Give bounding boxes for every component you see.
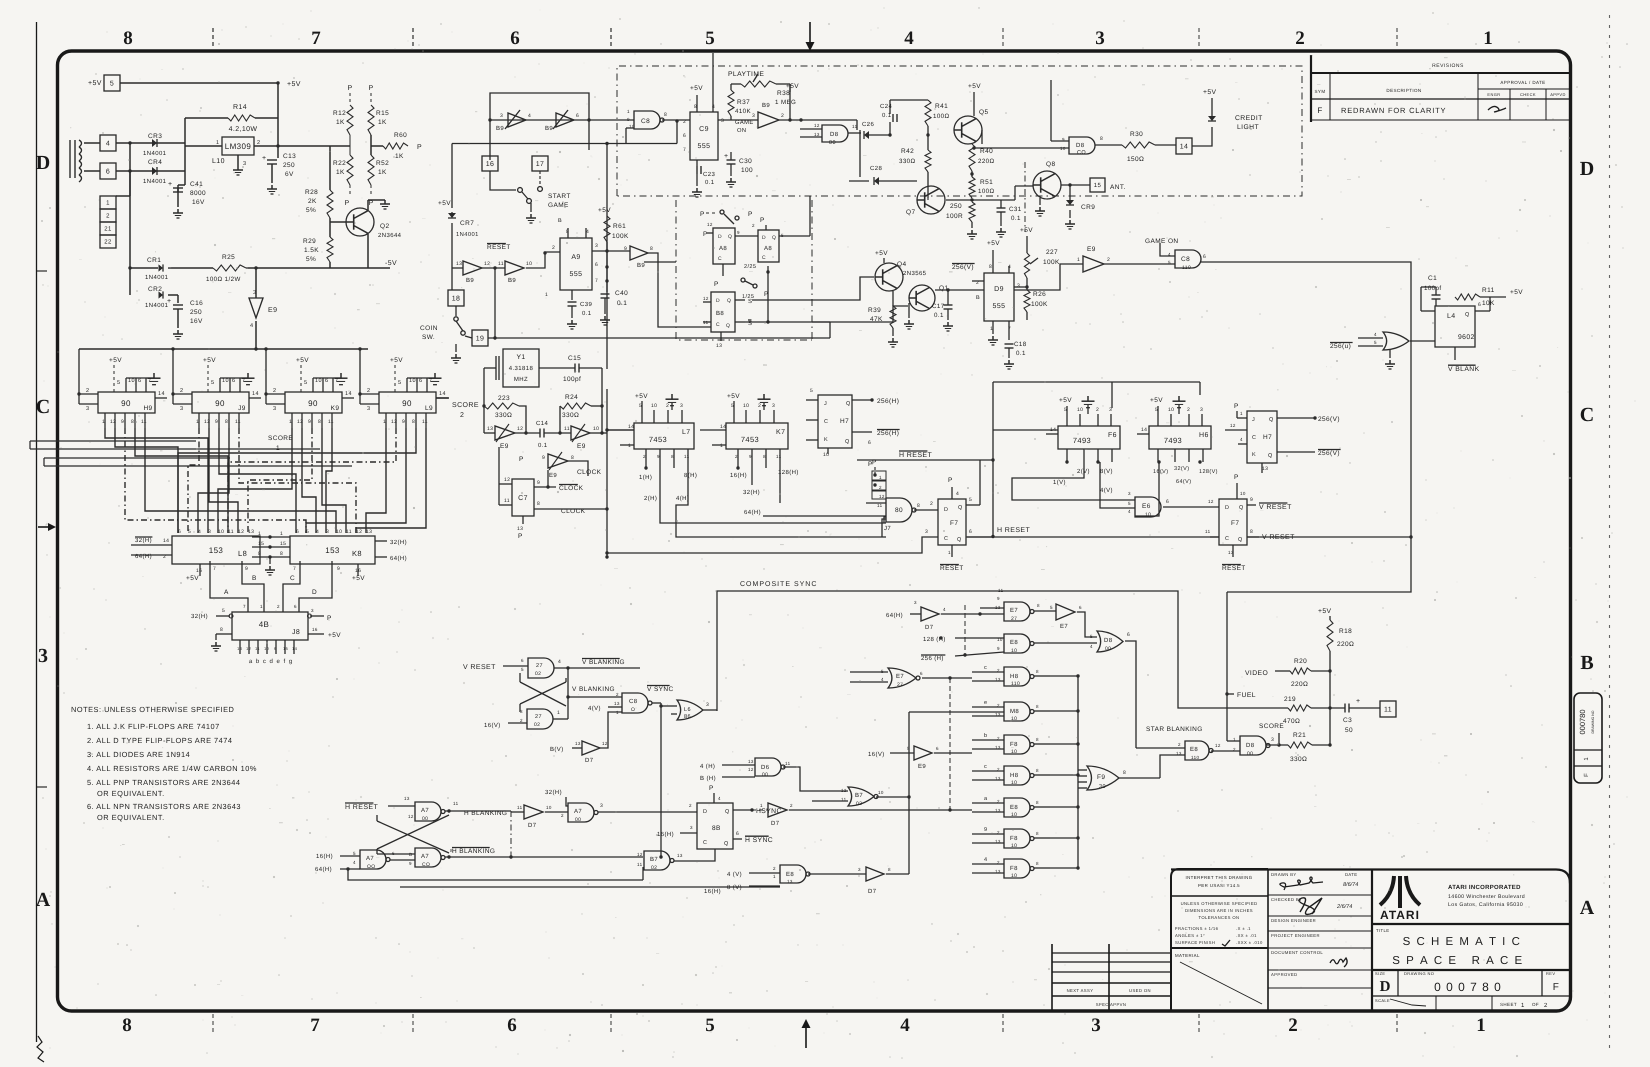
svg-text:C9: C9: [699, 126, 709, 133]
svg-text:9: 9: [409, 861, 412, 866]
svg-text:+5V: +5V: [690, 85, 703, 92]
svg-text:8: 8: [917, 503, 920, 509]
svg-text:220Ω: 220Ω: [978, 158, 995, 165]
svg-text:J7: J7: [884, 525, 891, 532]
svg-text:12: 12: [637, 852, 643, 857]
svg-text:4(H): 4(H): [676, 495, 689, 502]
svg-text:110: 110: [1182, 265, 1191, 271]
svg-text:64(H): 64(H): [135, 553, 152, 560]
svg-text:6: 6: [419, 378, 422, 384]
svg-text:NEXT ASSY: NEXT ASSY: [1067, 988, 1094, 993]
svg-text:SCORE: SCORE: [1259, 723, 1284, 730]
svg-text:6: 6: [969, 529, 972, 535]
svg-text:8: 8: [1036, 669, 1039, 674]
svg-text:15: 15: [283, 646, 289, 651]
svg-text:4: 4: [198, 529, 201, 535]
svg-text:SCALE: SCALE: [1375, 998, 1390, 1003]
svg-text:CR4: CR4: [148, 159, 162, 166]
svg-text:V RESET: V RESET: [463, 664, 496, 671]
svg-text:1: 1: [102, 419, 105, 425]
svg-text:P: P: [519, 456, 524, 463]
svg-text:3: 3: [1271, 737, 1274, 743]
svg-text:2: 2: [561, 813, 564, 818]
svg-text:8(V): 8(V): [1100, 468, 1113, 475]
svg-text:12: 12: [748, 767, 754, 772]
svg-text:1: 1: [1233, 737, 1236, 742]
svg-text:1: 1: [627, 109, 630, 114]
svg-text:256(V): 256(V): [1318, 416, 1340, 423]
svg-text:+5V: +5V: [203, 357, 216, 364]
svg-text:Q: Q: [726, 323, 730, 329]
svg-text:CR7: CR7: [460, 220, 474, 227]
svg-text:CR2: CR2: [148, 286, 162, 293]
svg-text:11: 11: [346, 529, 352, 535]
svg-text:+5V: +5V: [88, 80, 102, 87]
svg-text:13: 13: [716, 343, 722, 349]
svg-text:1K: 1K: [378, 169, 387, 176]
svg-text:16(H): 16(H): [316, 853, 333, 860]
svg-text:R22: R22: [333, 160, 346, 167]
svg-text:7: 7: [595, 278, 598, 284]
svg-text:C26: C26: [862, 121, 874, 128]
svg-text:16V: 16V: [192, 199, 205, 206]
svg-text:219: 219: [1284, 696, 1296, 703]
svg-text:4: 4: [904, 28, 914, 49]
svg-text:8: 8: [571, 455, 574, 461]
svg-text:1K: 1K: [336, 169, 345, 176]
svg-text:B9: B9: [637, 262, 645, 269]
svg-text:LM309: LM309: [225, 142, 252, 151]
svg-text:P: P: [417, 144, 422, 151]
svg-text:CR3: CR3: [148, 133, 162, 140]
svg-text:CLOCK: CLOCK: [559, 485, 584, 492]
svg-text:F8: F8: [1010, 865, 1018, 872]
svg-text:4: 4: [558, 659, 561, 665]
svg-text:S P A C E R A C E: S P A C E R A C E: [1392, 955, 1523, 967]
svg-text:E8: E8: [1010, 804, 1018, 811]
svg-text:1N4001: 1N4001: [145, 274, 169, 281]
svg-text:15: 15: [258, 541, 264, 547]
svg-text:9: 9: [997, 596, 1000, 601]
svg-text:C30: C30: [739, 158, 752, 165]
svg-text:+: +: [724, 153, 729, 160]
svg-text:8: 8: [1037, 603, 1040, 608]
svg-text:12: 12: [356, 529, 362, 535]
svg-text:R20: R20: [1294, 658, 1307, 665]
svg-text:R15: R15: [376, 110, 389, 117]
svg-text:H BLANKING: H BLANKING: [464, 810, 507, 817]
svg-text:B9: B9: [508, 277, 516, 284]
svg-text:COIN: COIN: [420, 325, 438, 332]
svg-text:10: 10: [1011, 843, 1017, 849]
svg-text:R42: R42: [901, 148, 914, 155]
svg-text:11: 11: [504, 498, 510, 504]
svg-text:3: 3: [1095, 28, 1105, 49]
svg-text:ANGLES ± 1°: ANGLES ± 1°: [1175, 933, 1205, 938]
svg-text:13: 13: [456, 261, 462, 267]
svg-text:E8: E8: [1010, 639, 1018, 646]
svg-text:A7: A7: [574, 808, 582, 815]
svg-text:C40: C40: [615, 290, 628, 297]
svg-text:10: 10: [1077, 407, 1083, 413]
svg-text:0 0 0 7 8 0: 0 0 0 7 8 0: [1434, 980, 1502, 994]
svg-text:150Ω: 150Ω: [1127, 156, 1144, 163]
svg-text:9: 9: [657, 454, 660, 459]
svg-text:16(H): 16(H): [657, 831, 674, 838]
svg-text:14: 14: [163, 538, 169, 544]
svg-text:A7: A7: [421, 853, 429, 860]
svg-text:DRAWN BY: DRAWN BY: [1271, 872, 1297, 877]
svg-text:64(V): 64(V): [1176, 479, 1191, 485]
svg-text:+5V: +5V: [109, 357, 122, 364]
svg-text:12: 12: [707, 222, 713, 227]
svg-text:6: 6: [595, 262, 598, 268]
svg-text:Y1: Y1: [516, 354, 525, 361]
svg-text:Los Gatos, California 95030: Los Gatos, California 95030: [1448, 902, 1523, 908]
svg-text:E7: E7: [896, 673, 904, 680]
svg-text:3: 3: [914, 600, 917, 605]
svg-text:555: 555: [993, 303, 1006, 310]
svg-text:F6: F6: [1108, 432, 1117, 439]
svg-text:13: 13: [248, 529, 254, 535]
svg-text:9: 9: [542, 455, 545, 461]
svg-text:2: 2: [1295, 28, 1305, 49]
svg-text:A: A: [224, 589, 229, 596]
svg-text:V BLANK: V BLANK: [1448, 366, 1480, 373]
svg-text:C15: C15: [568, 355, 581, 362]
svg-text:12: 12: [204, 419, 210, 425]
svg-text:14: 14: [1050, 427, 1056, 433]
svg-text:4: 4: [528, 113, 531, 119]
svg-text:D: D: [1580, 158, 1594, 180]
svg-text:CREDIT: CREDIT: [1235, 115, 1263, 122]
svg-text:D8: D8: [1076, 142, 1085, 149]
svg-text:C: C: [944, 536, 948, 542]
svg-text:C: C: [716, 322, 720, 328]
svg-text:7: 7: [293, 566, 296, 572]
svg-text:13: 13: [677, 853, 683, 858]
svg-text:5: 5: [1090, 634, 1093, 639]
svg-text:0.1: 0.1: [1011, 215, 1021, 222]
svg-text:9602: 9602: [1458, 334, 1475, 341]
svg-text:START: START: [548, 193, 571, 200]
svg-text:2: 2: [460, 412, 464, 419]
svg-text:H8: H8: [1010, 772, 1019, 779]
svg-text:.X ± .1: .X ± .1: [1236, 926, 1251, 931]
svg-text:47K: 47K: [870, 316, 883, 323]
svg-text:R26: R26: [1033, 291, 1046, 298]
svg-text:14: 14: [1180, 144, 1189, 151]
svg-text:L10: L10: [212, 158, 225, 165]
svg-text:8: 8: [650, 246, 653, 252]
svg-text:8: 8: [131, 419, 134, 425]
svg-text:1: 1: [258, 531, 261, 537]
svg-text:7: 7: [429, 378, 432, 384]
svg-text:P: P: [344, 200, 349, 207]
svg-text:Q: Q: [724, 841, 729, 847]
svg-text:C8: C8: [641, 118, 650, 125]
svg-text:SURFACE FINISH: SURFACE FINISH: [1175, 940, 1215, 945]
svg-text:C8: C8: [1181, 256, 1190, 263]
svg-text:P: P: [748, 211, 753, 218]
svg-text:APPROVAL / DATE: APPROVAL / DATE: [1500, 80, 1545, 85]
svg-text:8: 8: [1036, 831, 1039, 836]
svg-text:10: 10: [336, 529, 342, 535]
svg-text:8: 8: [220, 627, 223, 633]
svg-text:J: J: [1252, 417, 1255, 423]
svg-text:1(H): 1(H): [639, 474, 652, 481]
svg-text:DATE: DATE: [1345, 872, 1357, 877]
svg-text:C: C: [824, 419, 828, 425]
svg-text:c: c: [984, 764, 987, 770]
svg-text:2: 2: [1233, 747, 1236, 752]
svg-text:S: S: [748, 320, 752, 327]
svg-text:2N3644: 2N3644: [378, 232, 402, 239]
svg-text:SW.: SW.: [422, 334, 435, 341]
svg-text:13: 13: [814, 132, 820, 137]
svg-text:10: 10: [1011, 648, 1017, 654]
svg-text:19: 19: [476, 336, 485, 343]
svg-text:14600 Winchester Boulevard: 14600 Winchester Boulevard: [1448, 894, 1525, 900]
svg-text:555: 555: [570, 271, 583, 278]
svg-text:12: 12: [703, 296, 709, 301]
svg-text:APPROVED: APPROVED: [1271, 972, 1297, 977]
svg-text:1: 1: [545, 292, 548, 298]
svg-text:32(V): 32(V): [1174, 466, 1189, 472]
svg-text:D7: D7: [925, 624, 934, 631]
svg-text:2: 2: [781, 113, 784, 119]
svg-text:b: b: [984, 733, 987, 739]
svg-text:+5V: +5V: [875, 250, 888, 257]
svg-text:16(H): 16(H): [704, 888, 721, 895]
svg-text:K8: K8: [352, 549, 362, 558]
svg-text:SPEC APPVN: SPEC APPVN: [1096, 1002, 1127, 1007]
svg-text:e: e: [984, 700, 987, 706]
svg-text:8: 8: [225, 419, 228, 425]
svg-text:OO: OO: [367, 864, 376, 870]
svg-text:2: 2: [1544, 1002, 1548, 1009]
svg-text:13: 13: [1228, 550, 1234, 555]
svg-text:4: 4: [718, 796, 721, 801]
svg-text:13: 13: [1262, 466, 1268, 472]
svg-text:+: +: [262, 155, 267, 162]
svg-text:11: 11: [852, 124, 858, 129]
svg-text:DESCRIPTION: DESCRIPTION: [1386, 88, 1421, 93]
svg-text:11: 11: [141, 419, 147, 425]
svg-text:8: 8: [1250, 529, 1253, 535]
svg-text:9: 9: [624, 246, 627, 252]
svg-text:110: 110: [1191, 755, 1199, 760]
svg-text:3: 3: [1128, 491, 1131, 496]
svg-text:R51: R51: [980, 179, 993, 186]
svg-text:+5V: +5V: [968, 83, 981, 90]
svg-text:8: 8: [1123, 770, 1126, 776]
svg-text:11: 11: [498, 261, 504, 267]
svg-text:5: 5: [705, 28, 715, 49]
svg-text:00: 00: [762, 772, 768, 778]
svg-text:2: 2: [273, 388, 276, 394]
svg-text:6: 6: [510, 28, 520, 49]
svg-text:256(V): 256(V): [1318, 450, 1340, 457]
svg-text:-5V: -5V: [385, 260, 397, 267]
svg-text:3: 3: [1017, 283, 1020, 289]
svg-text:11: 11: [255, 646, 260, 651]
svg-text:4: 4: [881, 677, 884, 682]
svg-text:10: 10: [128, 378, 135, 384]
svg-text:4: 4: [1128, 509, 1131, 514]
svg-text:14: 14: [292, 646, 298, 651]
svg-text:14: 14: [720, 424, 726, 430]
svg-text:14: 14: [439, 391, 446, 397]
svg-text:3: 3: [706, 702, 709, 708]
svg-text:330Ω: 330Ω: [1290, 756, 1307, 763]
svg-text:1: 1: [879, 475, 882, 480]
svg-text:P: P: [368, 200, 373, 207]
svg-text:H RESET: H RESET: [997, 527, 1030, 534]
svg-text:D8: D8: [1246, 742, 1255, 749]
svg-text:6: 6: [1203, 254, 1206, 260]
svg-text:R29: R29: [303, 238, 316, 245]
svg-text:1N4001: 1N4001: [145, 302, 169, 309]
svg-text:11: 11: [1205, 529, 1211, 534]
svg-text:R60: R60: [394, 132, 407, 139]
svg-text:P: P: [368, 85, 373, 92]
svg-text:10: 10: [222, 378, 229, 384]
svg-text:L9: L9: [425, 405, 433, 412]
svg-text:3: 3: [752, 113, 755, 119]
svg-text:CR1: CR1: [147, 257, 161, 264]
svg-text:15: 15: [1094, 182, 1102, 189]
svg-text:A9: A9: [571, 254, 580, 261]
svg-text:1: 1: [948, 550, 951, 555]
svg-text:5: 5: [705, 1015, 715, 1036]
svg-text:CO: CO: [422, 862, 430, 868]
svg-text:+: +: [168, 181, 173, 188]
svg-text:6: 6: [683, 133, 686, 139]
svg-text:+5V: +5V: [987, 240, 1000, 247]
svg-text:11: 11: [1384, 707, 1392, 714]
svg-text:C3: C3: [1343, 717, 1352, 724]
svg-text:8: 8: [888, 867, 891, 872]
svg-text:100K: 100K: [1043, 259, 1060, 266]
svg-text:Q: Q: [1268, 453, 1273, 459]
svg-text:UNLESS OTHERWISE SPECIFIED: UNLESS OTHERWISE SPECIFIED: [1181, 901, 1258, 906]
svg-text:R39: R39: [868, 307, 881, 314]
svg-text:100Ω: 100Ω: [978, 188, 995, 195]
svg-text:9: 9: [274, 646, 277, 651]
svg-text:R61: R61: [613, 223, 626, 230]
svg-text:E9: E9: [268, 307, 277, 314]
svg-text:1: 1: [1240, 411, 1243, 416]
svg-text:110: 110: [1011, 681, 1020, 687]
svg-text:5: 5: [1050, 605, 1053, 610]
svg-text:1N4001: 1N4001: [456, 231, 479, 238]
svg-text:16(V): 16(V): [484, 722, 501, 729]
svg-text:12: 12: [408, 814, 414, 819]
svg-text:.XX ± .01: .XX ± .01: [1236, 933, 1257, 938]
svg-text:6: 6: [920, 671, 923, 676]
svg-text:10: 10: [1011, 780, 1017, 786]
svg-text:P: P: [760, 217, 765, 224]
svg-text:MHZ: MHZ: [514, 376, 528, 383]
svg-text:6: 6: [325, 378, 328, 384]
svg-text:ATARI: ATARI: [1380, 908, 1420, 922]
svg-text:SIZE: SIZE: [1375, 971, 1386, 976]
svg-text:B9: B9: [545, 125, 553, 132]
svg-text:+: +: [1356, 698, 1361, 705]
svg-text:Q: Q: [772, 235, 776, 241]
svg-text:2: 2: [106, 213, 110, 220]
svg-text:R28: R28: [305, 189, 318, 196]
svg-text:10: 10: [878, 790, 884, 795]
svg-text:27: 27: [536, 663, 543, 669]
svg-text:C18: C18: [1014, 341, 1027, 348]
svg-text:E9: E9: [577, 443, 586, 450]
svg-text:7453: 7453: [741, 435, 759, 444]
svg-text:10: 10: [1011, 716, 1017, 722]
svg-text:PROJECT ENGINEER: PROJECT ENGINEER: [1271, 933, 1320, 938]
svg-text:22: 22: [104, 239, 112, 246]
svg-text:2N3565: 2N3565: [903, 270, 927, 277]
svg-text:2: 2: [520, 718, 523, 723]
svg-text:555: 555: [698, 143, 711, 150]
svg-text:K: K: [824, 437, 828, 443]
svg-text:2: 2: [616, 692, 619, 697]
svg-text:RESET: RESET: [940, 565, 964, 572]
svg-text:8 (V): 8 (V): [727, 884, 742, 891]
svg-text:256(u): 256(u): [1330, 343, 1351, 350]
svg-text:RESET: RESET: [487, 244, 511, 251]
svg-text:9: 9: [984, 827, 987, 833]
svg-text:+5V: +5V: [727, 393, 740, 400]
svg-text:3: 3: [721, 118, 724, 124]
svg-text:c: c: [984, 665, 987, 671]
svg-text:2: 2: [1187, 407, 1190, 413]
svg-text:3: 3: [595, 243, 598, 249]
svg-text:+5V: +5V: [1318, 608, 1332, 615]
svg-text:1: 1: [289, 419, 292, 425]
svg-text:5: 5: [1128, 501, 1131, 506]
svg-text:12: 12: [504, 477, 510, 483]
svg-text:6: 6: [178, 529, 181, 535]
svg-text:C: C: [1580, 404, 1594, 426]
svg-text:256 (H): 256 (H): [921, 655, 944, 662]
svg-text:10: 10: [546, 805, 552, 810]
svg-text:3: 3: [86, 406, 89, 412]
svg-text:C: C: [762, 255, 766, 261]
svg-text:2: 2: [257, 140, 260, 146]
svg-text:11: 11: [235, 419, 241, 425]
svg-text:A: A: [36, 889, 51, 911]
svg-text:1: 1: [216, 140, 219, 146]
svg-text:B (H): B (H): [700, 775, 716, 782]
svg-text:4: 4: [316, 529, 319, 535]
svg-text:1: 1: [106, 200, 110, 207]
svg-text:F8: F8: [1010, 741, 1018, 748]
svg-text:A: A: [1580, 897, 1595, 919]
svg-text:250: 250: [950, 203, 962, 210]
svg-text:10: 10: [1011, 812, 1017, 818]
svg-text:100Ω 1/2W: 100Ω 1/2W: [206, 276, 241, 283]
svg-text:F: F: [1317, 106, 1322, 115]
svg-text:CHECK: CHECK: [1520, 92, 1536, 97]
svg-text:4: 4: [1090, 644, 1093, 649]
svg-text:+5V: +5V: [186, 575, 199, 582]
svg-text:8: 8: [280, 551, 283, 557]
svg-text:8: 8: [318, 419, 321, 425]
svg-text:2: 2: [86, 388, 89, 394]
svg-text:SHEET: SHEET: [1500, 1002, 1517, 1007]
